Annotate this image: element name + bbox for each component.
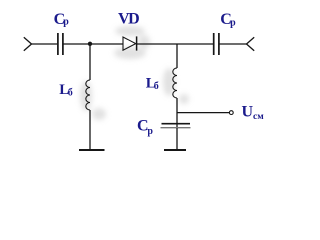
- capacitor C2 plates: [214, 33, 219, 55]
- svg-text:р: р: [147, 126, 153, 137]
- wire junction B down: [176, 44, 178, 68]
- wire C2 to output: [220, 43, 247, 45]
- wire junction A down: [89, 44, 91, 80]
- diode VD cathode bar: [136, 36, 138, 50]
- scan noise halos: [80, 26, 189, 120]
- svg-text:см: см: [253, 112, 264, 122]
- diode VD triangle: [123, 37, 136, 50]
- wire L2 to node C: [176, 98, 178, 127]
- output terminal right: [247, 37, 255, 50]
- svg-text:U: U: [242, 103, 254, 120]
- wire input to C1: [32, 43, 58, 45]
- wire L1 to ground: [89, 110, 91, 149]
- ground bar 1: [79, 149, 105, 151]
- svg-text:б: б: [68, 88, 73, 99]
- svg-text:VD: VD: [118, 11, 139, 28]
- capacitor C3 bottom plate: [161, 127, 191, 129]
- inductor L2 coil: [173, 68, 177, 98]
- capacitor C3 top plate: [162, 123, 191, 125]
- wire C1 to diode: [64, 43, 123, 45]
- input terminal left: [24, 37, 32, 50]
- ground bar 2: [164, 149, 186, 151]
- bias terminal circle: [229, 111, 233, 115]
- svg-text:р: р: [230, 18, 236, 29]
- wire C3 to ground: [176, 128, 178, 149]
- wire diode to C2: [137, 43, 214, 45]
- svg-text:б: б: [154, 81, 159, 92]
- wire node C to bias terminal: [177, 112, 229, 114]
- svg-text:р: р: [63, 17, 69, 28]
- inductor L1 coil: [86, 80, 90, 110]
- node A junction dot: [88, 42, 92, 46]
- capacitor C1 plates: [58, 33, 63, 55]
